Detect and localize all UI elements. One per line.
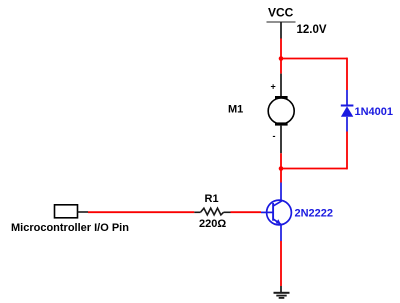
wire node A vertical (red): [280, 39, 282, 74]
node A junction dot: [279, 56, 284, 61]
diode D1 1N4001: [341, 106, 354, 117]
diode top lead (blue): [346, 90, 348, 106]
motor M1 symbol: [268, 96, 294, 126]
collector lead (blue): [280, 183, 282, 202]
wire emitter to ground (red): [280, 241, 282, 286]
svg-text:2N2222: 2N2222: [295, 208, 334, 220]
svg-text:12.0V: 12.0V: [297, 24, 327, 36]
wire node B vertical (red): [280, 153, 282, 182]
svg-text:220Ω: 220Ω: [199, 218, 226, 230]
wire resistor to transistor base (red): [231, 211, 262, 213]
node B junction dot: [279, 166, 284, 171]
wire into ground symbol (black): [280, 286, 282, 292]
wire diode bottom to node B (red horizontal): [281, 168, 347, 170]
wire motor - terminal down (black): [280, 126, 282, 154]
ground: [274, 293, 290, 298]
resistor R1: [194, 208, 230, 215]
wire node A to diode branch (red horizontal top): [281, 58, 347, 60]
svg-text:Microcontroller I/O Pin: Microcontroller I/O Pin: [11, 222, 129, 234]
svg-text:+: +: [271, 82, 276, 92]
wire right branch bottom (red): [346, 132, 348, 170]
box lead (black): [78, 211, 89, 213]
wire right branch top (red): [346, 58, 348, 90]
wire to motor + terminal (black): [280, 74, 282, 97]
transistor Q1 2N2222: [261, 200, 291, 225]
emitter lead (blue): [280, 225, 282, 241]
diode bottom lead (blue): [346, 117, 348, 132]
microcontroller I/O pin box: [55, 205, 78, 218]
wire VCC bar to red segment (black): [280, 22, 282, 39]
svg-text:1N4001: 1N4001: [355, 106, 394, 118]
svg-text:R1: R1: [205, 193, 219, 205]
svg-text:-: -: [273, 131, 276, 141]
svg-text:M1: M1: [228, 104, 243, 116]
wire box to resistor (red): [88, 211, 194, 213]
svg-text:VCC: VCC: [268, 6, 294, 20]
